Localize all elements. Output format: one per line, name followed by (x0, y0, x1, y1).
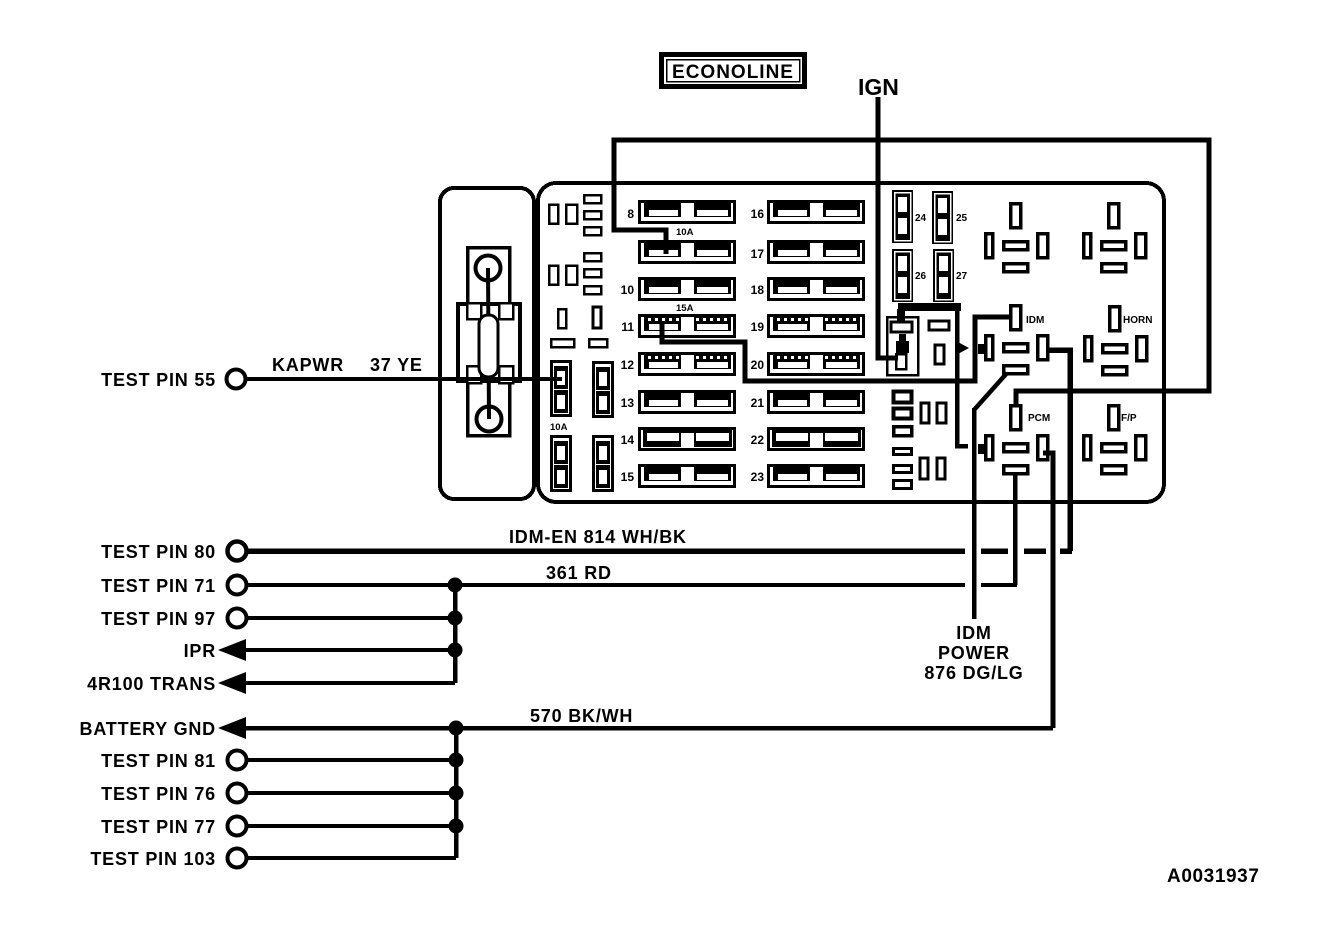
overlay notch bottom-left (467, 366, 481, 383)
fuse 9 (640, 242, 735, 263)
vertical fuse D (594, 437, 613, 491)
svg-text:20: 20 (751, 358, 765, 372)
fuse 11 (640, 316, 735, 337)
mini relay armature (899, 334, 906, 343)
mini relay box (887, 317, 918, 375)
svg-text:14: 14 (621, 433, 635, 447)
wire: PCM relay bottom pin drop to 361 RD (1013, 475, 1018, 585)
test pin 55 circle (227, 370, 246, 389)
svg-text:IDM-EN 814 WH/BK: IDM-EN 814 WH/BK (509, 527, 687, 547)
junction dot 77 (449, 819, 464, 834)
svg-text:19: 19 (751, 320, 765, 334)
svg-text:27: 27 (956, 271, 968, 282)
fuse 20 (769, 354, 864, 375)
test pin 77 circle (228, 817, 247, 836)
svg-text:15: 15 (621, 470, 635, 484)
junction dot 81 (449, 753, 464, 768)
svg-text:10A: 10A (676, 227, 694, 238)
svg-text:10A: 10A (550, 422, 568, 433)
relay HORN (1085, 307, 1147, 375)
trunk wire lower (454, 728, 459, 858)
svg-text:8: 8 (627, 207, 634, 221)
test pin 76 circle (228, 784, 247, 803)
svg-text:F/P: F/P (1121, 413, 1137, 424)
svg-text:TEST PIN 71: TEST PIN 71 (101, 576, 216, 596)
svg-text:TEST PIN 81: TEST PIN 81 (101, 751, 216, 771)
svg-text:361 RD: 361 RD (546, 563, 612, 583)
svg-text:IDM: IDM (1026, 315, 1044, 326)
junction dot 71 (448, 578, 463, 593)
trunk wire upper (453, 585, 458, 683)
wire: 361 RD with crossover gap (247, 583, 1017, 587)
wire: test pin 77 (247, 824, 456, 828)
connector bar column right (894, 392, 912, 489)
wire: fuses 26/27 bus down with arrow to PCM pin (957, 307, 968, 446)
svg-text:25: 25 (956, 213, 968, 224)
main fuse box outline (538, 183, 1164, 502)
ECONOLINE title box (662, 55, 805, 87)
overlay notch bottom-right (499, 366, 513, 383)
wire: test pin 76 (247, 791, 456, 795)
wire: 4R100 TRANS (246, 681, 455, 685)
svg-text:TEST PIN 55: TEST PIN 55 (101, 370, 216, 390)
overlay notch top-left (467, 303, 481, 319)
test pin 80 circle (228, 542, 247, 561)
BATTERY GND arrow (218, 717, 246, 739)
4R100 arrow (218, 672, 246, 694)
svg-text:A0031937: A0031937 (1167, 866, 1260, 887)
fuse 14 (640, 429, 735, 450)
wire: IDM-EN with crossover gaps (247, 548, 1072, 554)
svg-text:37 YE: 37 YE (370, 355, 423, 375)
relay F/P (1084, 406, 1146, 474)
fuse 15 (640, 466, 735, 487)
wire: IPR (246, 648, 455, 652)
PCM relay left tab (978, 444, 985, 454)
bracket bolt shaft (488, 268, 489, 419)
IPR arrow (218, 639, 246, 661)
svg-text:IDM: IDM (956, 623, 991, 643)
left connector pair 1 (549, 205, 558, 224)
svg-text:ECONOLINE: ECONOLINE (672, 62, 794, 83)
svg-text:TEST PIN 97: TEST PIN 97 (101, 609, 216, 629)
bracket top circle (476, 256, 501, 281)
svg-text:17: 17 (751, 247, 765, 261)
fuse 25 (932, 191, 953, 244)
fuse 26 (892, 249, 913, 302)
test pin 81 circle (228, 751, 247, 770)
fuse 27 (933, 249, 954, 302)
fuse 16 (769, 202, 864, 223)
svg-text:IPR: IPR (184, 641, 216, 661)
mini relay side pin (935, 345, 944, 364)
arrowhead on bus wire (956, 341, 969, 355)
svg-text:TEST PIN 76: TEST PIN 76 (101, 784, 216, 804)
svg-text:13: 13 (621, 396, 635, 410)
wire: 570 BK/WH (246, 726, 1053, 731)
svg-text:IGN: IGN (858, 74, 899, 100)
small vertical rect b (593, 307, 601, 328)
fuse 19 (769, 316, 864, 337)
fuse 8 (640, 202, 735, 223)
svg-text:KAPWR: KAPWR (272, 355, 344, 375)
svg-text:570 BK/WH: 570 BK/WH (530, 706, 633, 726)
overlay notch top-right (499, 303, 513, 319)
wire: IDM relay output down to test pin 80 line (1049, 350, 1070, 551)
wire: test pin 97 (247, 616, 455, 620)
mini relay bus bar under fuses 26/27 (898, 303, 961, 311)
fuse 21 (769, 392, 864, 413)
bracket bottom circle (477, 407, 502, 432)
mini relay bottom pin (896, 354, 906, 369)
relay PCM (986, 406, 1048, 474)
junction dot battery gnd (449, 721, 464, 736)
svg-text:BATTERY GND: BATTERY GND (80, 719, 216, 739)
svg-text:15A: 15A (676, 303, 694, 314)
wire: KAPWR 37 YE (246, 377, 562, 381)
fuse 18 (769, 279, 864, 300)
wire: IDM relay blade diagonal (974, 373, 1007, 410)
connector bar column (584, 195, 601, 294)
fuse 17 (769, 242, 864, 263)
relay cluster B (top) (1084, 204, 1146, 272)
wire: PCM relay output drop to 570 BK/WH (1043, 453, 1053, 728)
fuse 13 (640, 392, 735, 413)
small horizontal bar a (551, 339, 574, 347)
small horizontal bar b (589, 339, 607, 347)
test pin 71 circle (228, 576, 247, 595)
svg-text:21: 21 (751, 396, 765, 410)
small vertical rect a (558, 309, 566, 328)
svg-text:11: 11 (621, 320, 634, 334)
svg-text:HORN: HORN (1123, 315, 1152, 326)
junction dot IPR (448, 643, 463, 658)
left connector pair 2 (549, 266, 558, 285)
svg-text:POWER: POWER (938, 643, 1010, 663)
vertical fuse A (KAPWR target) (552, 362, 571, 416)
fuse 22 (769, 429, 864, 450)
right connector pair 2 (920, 458, 928, 479)
relay cluster A (top) (986, 204, 1048, 272)
bracket overlay plate (458, 304, 520, 381)
bracket inner plate (468, 248, 510, 436)
svg-text:876 DG/LG: 876 DG/LG (924, 663, 1023, 683)
svg-text:TEST PIN 80: TEST PIN 80 (101, 542, 216, 562)
relay IDM (986, 306, 1048, 374)
svg-text:22: 22 (751, 433, 765, 447)
svg-text:16: 16 (751, 207, 765, 221)
svg-text:TEST PIN 77: TEST PIN 77 (101, 817, 216, 837)
svg-text:23: 23 (751, 470, 765, 484)
wire: IDM POWER drop (972, 408, 977, 619)
wire: fuse10 to frame to PCM relay coil (614, 140, 1209, 406)
svg-text:26: 26 (915, 271, 927, 282)
fuse 12 (640, 354, 735, 375)
svg-text:24: 24 (915, 213, 927, 224)
svg-text:10: 10 (621, 283, 635, 297)
svg-text:PCM: PCM (1028, 413, 1050, 424)
junction dot 76 (449, 786, 464, 801)
fuse 24 (892, 190, 913, 243)
wire: test pin 103 (247, 856, 456, 860)
IDM relay left tab (978, 344, 985, 354)
fuse 23 (769, 466, 864, 487)
bracket bolt bulge (479, 315, 498, 377)
vertical fuse C (552, 437, 571, 491)
mini relay top pin (891, 322, 912, 332)
right connector pair 1 (921, 403, 929, 423)
junction dot 97 (448, 611, 463, 626)
mini relay feed stub (897, 309, 905, 322)
test pin 103 circle (228, 849, 247, 868)
svg-text:12: 12 (621, 358, 635, 372)
mini relay side bar (929, 321, 949, 330)
svg-text:4R100 TRANS: 4R100 TRANS (87, 674, 216, 694)
test pin 97 circle (228, 609, 247, 628)
wire: test pin 81 (247, 758, 456, 762)
wire: fuse11 to bus and IDM relay coil (662, 317, 1010, 381)
vertical fuse B (594, 363, 613, 417)
mounting bracket (440, 188, 534, 499)
svg-text:TEST PIN 103: TEST PIN 103 (90, 849, 216, 869)
svg-text:18: 18 (751, 283, 765, 297)
wire: IGN down to mini relay (878, 97, 898, 358)
fuse 10 (640, 279, 735, 300)
